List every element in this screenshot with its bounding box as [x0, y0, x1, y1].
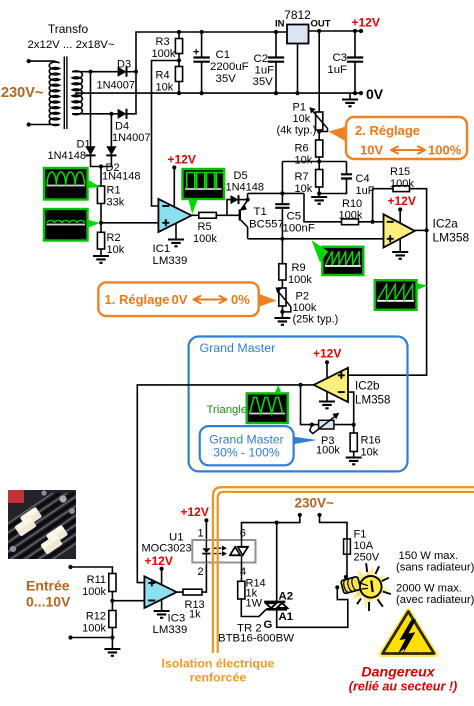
svg-text:IC2b: IC2b [355, 380, 380, 393]
svg-text:C2: C2 [254, 53, 269, 65]
wire: D1/D2 cathodes join [91, 155, 112, 166]
IC3 ground [161, 600, 163, 611]
wire: rectifier output up to raw DC rail [136, 32, 287, 72]
svg-text:+12V: +12V [313, 347, 341, 361]
svg-text:1: 1 [198, 528, 204, 540]
lamp glow [348, 566, 389, 607]
svg-text:R5: R5 [198, 221, 212, 233]
wire: IC2a out down to Grand Master [348, 230, 427, 375]
svg-text:R16: R16 [361, 435, 381, 447]
IC2a ground [399, 239, 401, 252]
comparator IC1 LM339 [158, 199, 191, 232]
svg-text:2x12V ... 2x18V~: 2x12V ... 2x18V~ [27, 39, 114, 51]
scope thumb: rectified sine [44, 168, 88, 200]
svg-text:+12V: +12V [181, 505, 209, 519]
svg-text:2. Réglage: 2. Réglage [355, 123, 420, 138]
blue bubble Grand Master 30%-100% [292, 437, 317, 445]
svg-text:R10: R10 [342, 198, 362, 210]
resistor R4 10k [175, 67, 182, 82]
wire: R6/R7/C4 rail [282, 161, 346, 163]
double arrow in callout 1 [194, 296, 227, 303]
svg-text:0V: 0V [172, 292, 188, 307]
potentiometer P1 10k [318, 31, 320, 112]
svg-text:IC3: IC3 [168, 613, 186, 625]
scope thumb: sawtooth at IC2a output [375, 280, 417, 310]
wire: IC2b - input to P3 wiper node [348, 392, 354, 425]
svg-text:0%: 0% [231, 292, 250, 307]
wire: R10 branch [304, 193, 342, 221]
diode D3 1N4007 [118, 67, 127, 77]
svg-text:Transfo: Transfo [48, 22, 89, 36]
diode D5 1N4148 [231, 195, 239, 204]
svg-text:(avec radiateur): (avec radiateur) [396, 594, 474, 606]
svg-text:35V: 35V [253, 76, 274, 88]
resistor R12 100k [109, 611, 116, 628]
svg-text:100k: 100k [288, 274, 312, 286]
diode D2 1N4148 (vertical) [110, 114, 112, 147]
node: D1 tap on top AC line [88, 70, 92, 74]
wire: mains left terminal to pin6/A2 rail [242, 515, 300, 540]
svg-text:1N4148: 1N4148 [226, 182, 265, 194]
resistor R1 33k [100, 167, 102, 187]
svg-text:1N4148: 1N4148 [47, 150, 86, 162]
U1 internal LED [205, 540, 207, 563]
svg-text:Grand Master: Grand Master [200, 341, 276, 355]
green arrow to IC2a output wire [417, 283, 428, 290]
wire: IC2a output [415, 229, 427, 231]
svg-text:R7: R7 [295, 171, 309, 183]
svg-text:C3: C3 [332, 52, 347, 64]
svg-text:10k: 10k [107, 244, 125, 256]
wire: emitter node line A [248, 192, 304, 194]
triac TR2 BTB16-600BW [264, 601, 285, 604]
feedback resistor R15 100k [373, 189, 393, 222]
optocoupler U1 box [192, 540, 255, 563]
svg-text:A1: A1 [279, 611, 294, 623]
svg-text:230V~: 230V~ [295, 496, 335, 511]
svg-text:100k: 100k [82, 623, 106, 635]
svg-text:MOC3023: MOC3023 [142, 543, 192, 555]
wire: lamp to triac A1 [277, 587, 348, 627]
green arrow from pulse scope to IC1 output [189, 200, 198, 215]
svg-text:C4: C4 [356, 173, 370, 185]
wire: fuse to lamp [346, 554, 348, 577]
wire: mains right terminal to fuse [320, 515, 348, 539]
svg-text:Grand Master: Grand Master [209, 433, 284, 447]
svg-text:F1: F1 [354, 529, 367, 541]
wire: secondary top to D3 [72, 71, 117, 73]
ground below R7 [318, 194, 320, 198]
node IC2a - input [371, 220, 375, 224]
svg-text:renforcée: renforcée [190, 671, 247, 685]
riser R5/D5 [227, 200, 231, 216]
svg-text:2: 2 [198, 566, 204, 578]
svg-text:1N4007: 1N4007 [97, 80, 136, 92]
svg-text:D1: D1 [77, 139, 91, 151]
wire: IC3 out to R13 [177, 591, 183, 593]
lamp base (screw) [341, 576, 361, 594]
svg-text:(relié au secteur !): (relié au secteur !) [349, 680, 458, 694]
svg-text:T1: T1 [254, 206, 267, 218]
wire: divider to IC3 - input [112, 600, 144, 602]
7812 ground pin [297, 44, 299, 94]
capacitor C4 1uF [319, 162, 346, 194]
wire: R11 to R12 [111, 592, 113, 611]
transformer core [64, 57, 67, 130]
svg-text:1uF: 1uF [327, 64, 347, 76]
svg-text:+: + [193, 47, 199, 59]
svg-text:(25k typ.): (25k typ.) [293, 314, 339, 326]
Grand Master frame [189, 337, 408, 472]
svg-text:1k: 1k [189, 609, 201, 621]
primary terminal dots [27, 59, 31, 63]
svg-text:100k: 100k [316, 445, 340, 457]
potentiometer P2 100k [281, 280, 283, 288]
resistor R2 10k [97, 232, 104, 249]
green arrow from sawtooth scope up-left [312, 240, 329, 262]
wire: sawtooth bus (T1 collector to IC2a +) [248, 238, 384, 240]
lamp terminals [344, 575, 348, 579]
svg-text:30% - 100%: 30% - 100% [213, 446, 280, 460]
svg-text:IN: IN [275, 19, 285, 30]
resistor R3 100k [175, 39, 182, 54]
transformer TR1 secondary winding [72, 71, 82, 115]
wire: IC1 out to R5 [192, 214, 199, 216]
svg-text:35V: 35V [216, 73, 237, 85]
wire: R13 to U1 pin2 [202, 563, 206, 593]
svg-text:100k: 100k [193, 233, 217, 245]
svg-text:1uF: 1uF [255, 65, 275, 77]
op-amp IC2b LM358 (pointing left) [314, 368, 348, 402]
scope thumb: triangle wave [247, 393, 288, 423]
svg-text:100nF: 100nF [283, 223, 315, 235]
svg-text:+12V: +12V [145, 554, 173, 568]
wire: R5 to T1 base [216, 214, 239, 216]
node R3/R4 junction [177, 58, 181, 62]
resistor R7 10k [316, 170, 323, 188]
svg-text:D4: D4 [115, 121, 129, 133]
svg-text:2000 W max.: 2000 W max. [396, 583, 462, 595]
wire: R1 to R2 / IC1 + input [101, 204, 158, 223]
svg-text:0V: 0V [366, 86, 384, 102]
resistor R10 100k [342, 219, 359, 225]
orange callout 2. Reglage [329, 127, 347, 142]
resistor R5 100k [199, 212, 217, 218]
green arrow from scope to R1/R2 node [88, 220, 100, 229]
U1 internal phototriac [241, 540, 243, 563]
diode D4 1N4007 [118, 109, 127, 119]
svg-text:1. Réglage: 1. Réglage [105, 292, 170, 307]
node line A / C5 top [280, 191, 284, 195]
potentiometer P3 100k [319, 420, 334, 429]
svg-text:R15: R15 [390, 166, 410, 178]
svg-text:R1: R1 [107, 185, 121, 197]
photo: fader sliders [0, 490, 151, 565]
svg-text:230V~: 230V~ [1, 85, 43, 101]
lamp bulb [360, 576, 382, 598]
lamp rays [357, 563, 391, 611]
ground below P2 [274, 318, 290, 325]
U1 pin1 wire [205, 520, 207, 540]
P1 wiper arrow [312, 111, 327, 132]
svg-text:100k: 100k [293, 302, 317, 314]
svg-text:1W: 1W [246, 598, 263, 610]
wire: IC2b output [137, 385, 313, 583]
wire: secondary bottom to D4 [72, 113, 117, 115]
wire: 7812 OUT to +12V [309, 30, 364, 32]
svg-text:250V: 250V [354, 552, 380, 564]
svg-text:+12V: +12V [388, 194, 416, 208]
wire: secondary center tap / 0V rail [75, 92, 361, 94]
comparator IC3 LM339 [144, 576, 176, 608]
node R6/R7 [317, 159, 321, 163]
wire: input top to R11 [71, 567, 113, 574]
resistor R11 100k [109, 574, 116, 592]
svg-text:100k: 100k [390, 178, 414, 190]
triac gate wire [241, 599, 266, 617]
svg-text:C1: C1 [216, 49, 231, 61]
node: D2 tap on bottom AC line [109, 112, 113, 116]
resistor R14 1k 1W [238, 581, 245, 599]
warning triangle [381, 611, 436, 655]
svg-text:BC557: BC557 [249, 219, 284, 231]
svg-text:R6: R6 [295, 143, 309, 155]
wire: R3/R4 junction to IC1 - input [152, 61, 180, 207]
scope thumb: pulses at IC1 output [183, 169, 225, 199]
svg-text:LM339: LM339 [153, 624, 188, 636]
mains terminals [298, 513, 302, 517]
ground below R12 [104, 649, 120, 656]
svg-text:100%: 100% [428, 143, 462, 158]
double arrow in callout 2 [391, 146, 425, 153]
resistor R13 1k [183, 589, 202, 595]
capacitor C1 2200uF [201, 32, 203, 93]
svg-text:10V: 10V [360, 143, 383, 158]
svg-text:1N4007: 1N4007 [112, 132, 151, 144]
svg-text:Isolation électrique: Isolation électrique [162, 657, 275, 671]
svg-text:10k: 10k [293, 113, 311, 125]
isolation barrier (double orange line) [213, 487, 474, 653]
lightning bolt [398, 620, 416, 654]
svg-text:10k: 10k [295, 155, 313, 167]
svg-text:2200uF: 2200uF [210, 61, 249, 73]
svg-text:33k: 33k [107, 197, 125, 209]
node C5 bottom [280, 237, 284, 241]
green arrow from scope to R1 node [88, 180, 101, 189]
resistor R16 10k [350, 433, 357, 452]
svg-text:100k: 100k [82, 586, 106, 598]
svg-text:Dangereux: Dangereux [361, 665, 435, 681]
svg-text:OUT: OUT [311, 19, 331, 30]
wire: R10 to IC2a - input [359, 221, 384, 223]
ground below R2 [93, 256, 109, 263]
node R3 top [177, 30, 181, 34]
transistor T1 BC557 (PNP) [239, 209, 241, 220]
svg-text:R12: R12 [86, 611, 106, 623]
op-amp IC2a LM358 [384, 214, 415, 247]
svg-text:Triangle: Triangle [207, 404, 248, 416]
svg-text:150 W max.: 150 W max. [399, 550, 459, 562]
svg-text:D5: D5 [234, 170, 248, 182]
svg-text:LM358: LM358 [355, 394, 390, 407]
fuse F1 10A [344, 539, 351, 554]
svg-text:(4k typ.): (4k typ.) [277, 125, 317, 137]
capacitor C5 100nF [281, 193, 283, 238]
resistor R6 10k [318, 130, 320, 140]
node T1 emitter / D5 [246, 198, 250, 202]
transformer TR1 primary winding [29, 61, 60, 125]
node: rectifier output junction [134, 70, 138, 74]
IC1 ground [175, 224, 177, 240]
svg-text:100k: 100k [152, 48, 176, 60]
wire: A2 down to triac [276, 523, 278, 602]
svg-text:1N4148: 1N4148 [102, 171, 141, 183]
diode D1 1N4148 (vertical) [90, 72, 92, 147]
wire: output node down to P3 [301, 385, 319, 425]
riser: line A to R6/R7 rail [281, 162, 283, 194]
svg-text:10k: 10k [361, 447, 379, 459]
svg-text:R2: R2 [107, 232, 121, 244]
orange callout 1. Reglage [258, 294, 277, 308]
input terminals [68, 565, 72, 569]
svg-text:R3: R3 [156, 36, 170, 48]
svg-text:R9: R9 [292, 262, 306, 274]
scope thumb: divided ripple [44, 209, 88, 241]
node A2 branch [275, 521, 279, 525]
node: detector node [99, 164, 103, 168]
svg-text:+12V: +12V [352, 16, 380, 30]
ground below R16 [346, 458, 362, 465]
IC1 V+ stub [172, 165, 176, 169]
svg-text:0...10V: 0...10V [26, 594, 71, 610]
green arrow from triangle scope up [275, 385, 282, 394]
svg-text:G: G [264, 619, 273, 631]
capacitor C2 1uF 35V [275, 32, 277, 93]
capacitor C3 1uF [354, 31, 356, 93]
svg-text:IC2a: IC2a [433, 217, 459, 231]
svg-text:(sans radiateur): (sans radiateur) [396, 562, 474, 574]
svg-text:BTB16-600BW: BTB16-600BW [218, 633, 294, 645]
svg-text:10A: 10A [354, 540, 374, 552]
node 0V [359, 91, 363, 95]
wire: input bottom [71, 628, 113, 650]
svg-text:D3: D3 [117, 59, 131, 71]
svg-text:LM358: LM358 [433, 231, 470, 245]
svg-text:7812: 7812 [284, 8, 311, 22]
regulator U 7812 [287, 25, 309, 44]
svg-text:R11: R11 [87, 574, 106, 586]
svg-text:P1: P1 [293, 102, 306, 114]
svg-text:Entrée: Entrée [26, 578, 70, 594]
svg-text:C5: C5 [287, 211, 302, 223]
U1 light arrows [214, 548, 222, 553]
ground at 0V rail [349, 93, 351, 99]
node R7 bottom [317, 191, 321, 195]
svg-text:A2: A2 [279, 591, 294, 603]
scope thumb: sawtooth at IC2a + [322, 247, 363, 275]
svg-text:10k: 10k [156, 82, 174, 94]
svg-text:P2: P2 [296, 291, 309, 303]
svg-text:R4: R4 [156, 70, 170, 82]
svg-text:100k: 100k [339, 210, 363, 222]
IC2b ground [326, 392, 328, 402]
svg-text:LM339: LM339 [153, 255, 188, 267]
svg-text:IC1: IC1 [153, 243, 171, 255]
resistor R9 100k [281, 239, 283, 264]
svg-text:+12V: +12V [168, 153, 196, 167]
